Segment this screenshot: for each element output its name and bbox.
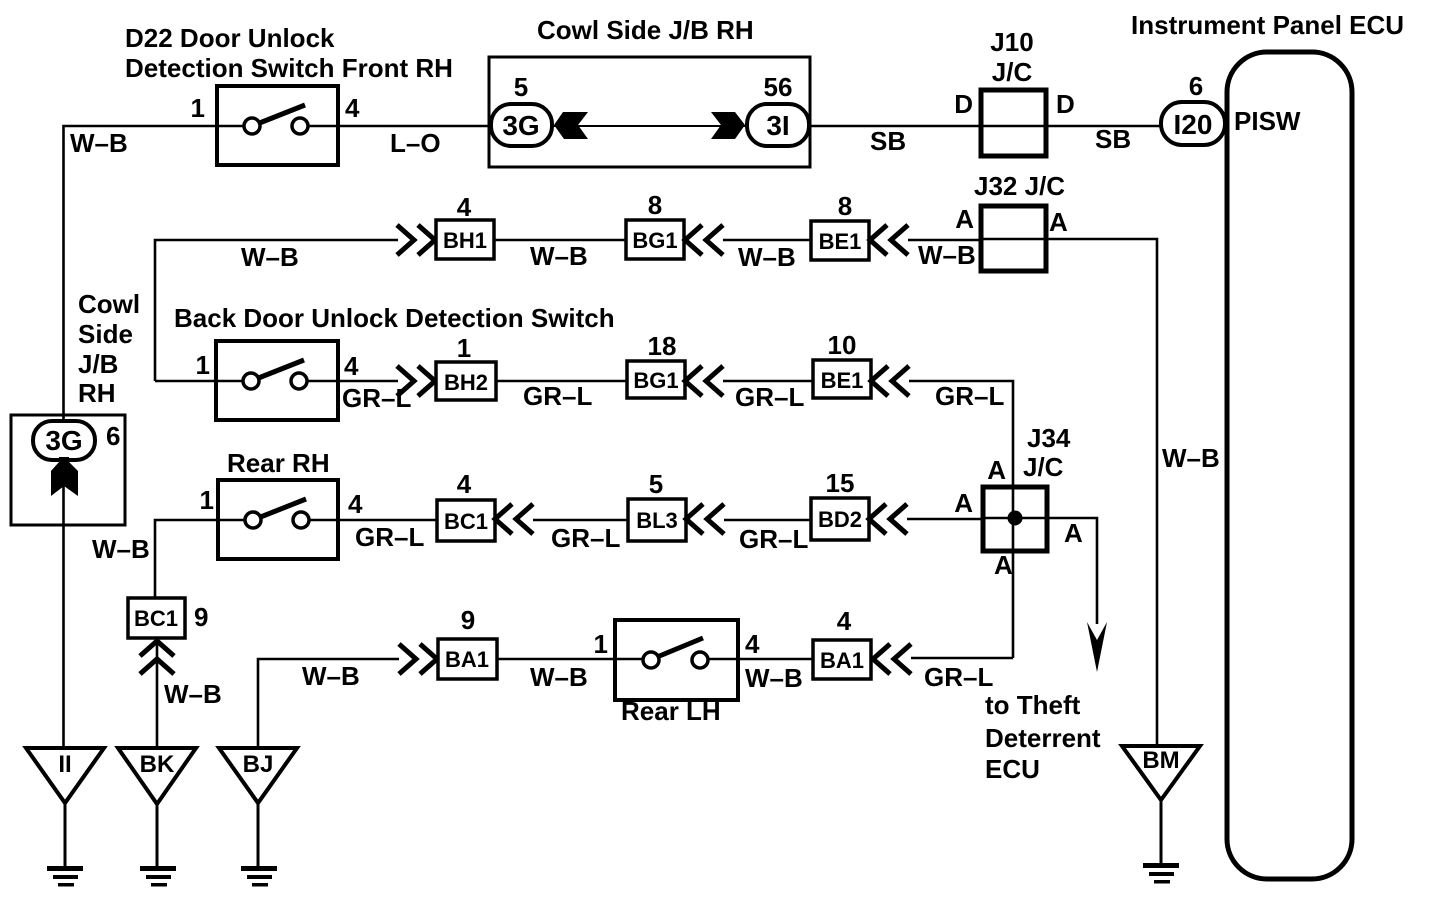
connector BA1 left <box>438 639 497 679</box>
svg-text:W–B: W–B <box>738 242 796 272</box>
arrow chevrons out of BD2 <box>869 504 907 534</box>
wire GR-L Rear RH to BC1 <box>338 519 437 522</box>
svg-text:D: D <box>954 89 973 119</box>
wire GR-L from BE1 down to J34 <box>909 381 1013 487</box>
junction J10 J/C <box>981 27 1046 156</box>
svg-text:BG1: BG1 <box>632 228 677 253</box>
connector BG1 row3 <box>627 361 685 398</box>
arrow chevrons out of BC1 <box>495 504 533 534</box>
svg-text:BJ: BJ <box>243 751 274 778</box>
svg-text:6: 6 <box>1189 71 1203 101</box>
svg-text:GR–L: GR–L <box>735 382 804 412</box>
svg-text:W–B: W–B <box>1162 443 1220 473</box>
svg-text:Rear RH: Rear RH <box>227 448 330 478</box>
svg-text:D: D <box>1056 89 1075 119</box>
wire W-B riser from Back Door switch pin 1 up to row 2 <box>155 240 398 381</box>
svg-text:10: 10 <box>828 330 857 360</box>
svg-text:J/B: J/B <box>78 349 118 379</box>
switch Back Door Unlock Detection Switch <box>216 341 338 420</box>
svg-text:W–B: W–B <box>530 662 588 692</box>
connector BG1 row2 <box>626 220 684 259</box>
connector 3I <box>747 104 809 146</box>
svg-text:4: 4 <box>348 489 363 519</box>
svg-text:1: 1 <box>196 350 210 380</box>
svg-text:L–O: L–O <box>390 128 441 158</box>
switch D22 Door Unlock Detection Switch Front RH <box>217 86 338 165</box>
wire W-B BE1 to J32 <box>908 239 981 242</box>
arrow chevrons out of BL3 <box>686 504 724 534</box>
svg-text:BG1: BG1 <box>633 368 678 393</box>
svg-text:BL3: BL3 <box>636 508 678 533</box>
wire through J32 to BM ground riser <box>981 239 1157 746</box>
junction block Cowl Side J/B RH box <box>489 57 810 167</box>
ground symbol BM <box>1143 863 1179 884</box>
arrow chevrons into BH1 <box>397 225 435 255</box>
wire GR-L BG1 to BE1 <box>723 380 813 383</box>
svg-text:J/C: J/C <box>992 57 1033 87</box>
connector BA1 right <box>813 640 871 679</box>
svg-text:BM: BM <box>1142 747 1179 774</box>
wire below BC1 to BK ground <box>156 638 159 748</box>
svg-text:W–B: W–B <box>92 534 150 564</box>
switch Rear LH <box>615 620 738 700</box>
junction dot in J34 <box>1008 511 1023 526</box>
connector BE1 row3 <box>813 360 871 398</box>
svg-text:BE1: BE1 <box>821 368 864 393</box>
svg-text:I20: I20 <box>1174 109 1213 140</box>
arrow chevrons up into BC1 <box>140 641 174 674</box>
svg-text:BC1: BC1 <box>134 606 178 631</box>
svg-text:1: 1 <box>457 333 471 363</box>
wire W-B BG1 to BE1 <box>723 239 811 242</box>
arrow into 3I <box>711 112 745 139</box>
junction J34 J/C <box>983 423 1071 551</box>
arrow chevrons out of BG1 <box>685 225 723 255</box>
svg-text:1: 1 <box>191 93 205 123</box>
wire W-B from D22 pin 1 down-left to Cowl Side J/B RH (left) <box>64 126 218 421</box>
junction block Cowl Side J/B RH (left) box <box>11 415 125 525</box>
svg-text:W–B: W–B <box>530 241 588 271</box>
svg-text:Detection Switch Front RH: Detection Switch Front RH <box>125 53 453 83</box>
wire vertical through J34 down to row 5 <box>1012 487 1015 658</box>
connector BE1 row2 <box>811 221 869 260</box>
title Cowl Side J/B RH (left) <box>78 289 140 408</box>
arrow up into 3G left <box>51 457 78 496</box>
connector BC1 left column <box>128 598 185 638</box>
svg-text:4: 4 <box>345 93 360 123</box>
svg-text:Back Door Unlock Detection Swi: Back Door Unlock Detection Switch <box>174 303 615 333</box>
svg-text:ECU: ECU <box>985 754 1040 784</box>
svg-text:A: A <box>954 488 973 518</box>
svg-text:18: 18 <box>648 331 677 361</box>
svg-text:4: 4 <box>457 469 472 499</box>
svg-text:BA1: BA1 <box>820 648 864 673</box>
svg-text:W–B: W–B <box>164 679 222 709</box>
ECU Instrument Panel ECU <box>1131 10 1404 879</box>
title D22 Door Unlock Detection Switch Front RH <box>125 23 453 83</box>
svg-text:BH1: BH1 <box>443 228 487 253</box>
arrow chevrons out of BA1 right <box>873 644 911 674</box>
svg-text:5: 5 <box>514 72 528 102</box>
wire GR-L from Back Door switch to BH2 <box>338 380 398 383</box>
svg-text:RH: RH <box>78 378 116 408</box>
switch Rear RH <box>218 480 338 559</box>
svg-text:W–B: W–B <box>302 661 360 691</box>
wire BJ to ground <box>257 803 260 867</box>
svg-text:5: 5 <box>649 469 663 499</box>
svg-text:A: A <box>1049 207 1068 237</box>
svg-text:GR–L: GR–L <box>739 524 808 554</box>
svg-text:9: 9 <box>461 605 475 635</box>
svg-text:W–B: W–B <box>70 128 128 158</box>
arrow chevrons out of BG1 row3 <box>685 366 723 396</box>
ground BJ triangle <box>219 748 297 803</box>
wire GR-L BA1 to J34 riser <box>911 657 1013 660</box>
wire through left Cowl box down to II ground <box>62 415 65 748</box>
svg-text:A: A <box>955 204 974 234</box>
connector 3G <box>491 104 552 146</box>
svg-text:9: 9 <box>194 602 208 632</box>
wire W-B Rear LH to BA1 right <box>738 658 813 661</box>
svg-text:15: 15 <box>826 468 855 498</box>
svg-text:PISW: PISW <box>1234 106 1301 136</box>
svg-text:Side: Side <box>78 319 133 349</box>
connector 3G (left) <box>33 421 95 460</box>
arrow chevrons into BA1 <box>399 644 437 674</box>
svg-text:GR–L: GR–L <box>924 662 993 692</box>
connector BH1 <box>436 220 494 259</box>
svg-text:Cowl Side J/B RH: Cowl Side J/B RH <box>537 15 754 45</box>
wire BM to ground <box>1160 800 1163 864</box>
svg-text:to Theft: to Theft <box>985 690 1081 720</box>
svg-text:4: 4 <box>837 606 852 636</box>
ground II triangle <box>26 748 104 803</box>
svg-text:W–B: W–B <box>918 240 976 270</box>
svg-text:Deterrent: Deterrent <box>985 723 1101 753</box>
wire BK to ground <box>156 804 159 867</box>
svg-text:W–B: W–B <box>745 663 803 693</box>
svg-text:J/C: J/C <box>1023 452 1064 482</box>
svg-text:3G: 3G <box>502 110 539 141</box>
svg-text:GR–L: GR–L <box>551 523 620 553</box>
svg-text:BA1: BA1 <box>445 647 489 672</box>
wire inside Cowl Side J/B between 3G and 3I <box>552 125 747 127</box>
svg-text:A: A <box>1064 518 1083 548</box>
wire GR-L BD2 to J34 <box>907 518 983 521</box>
wire from Rear RH pin 1 down to BC1 <box>155 520 218 598</box>
wire L-O from D22 pin 4 to connector 3G <box>338 125 491 128</box>
svg-text:56: 56 <box>764 72 793 102</box>
connector I20 <box>1161 102 1225 145</box>
svg-text:3I: 3I <box>766 110 789 141</box>
svg-text:GR–L: GR–L <box>523 381 592 411</box>
svg-text:Instrument Panel ECU: Instrument Panel ECU <box>1131 10 1404 40</box>
svg-text:4: 4 <box>457 192 472 222</box>
svg-text:6: 6 <box>106 421 120 451</box>
connector BD2 <box>811 498 869 540</box>
wire W-B BH1 to BG1 <box>494 239 626 242</box>
svg-text:J10: J10 <box>990 27 1033 57</box>
label to Theft Deterrent ECU <box>985 690 1101 784</box>
wire GR-L BH2 to BG1 <box>496 380 627 383</box>
wire W-B BA1 to Rear LH <box>497 658 615 661</box>
wire through J34 to Theft Deterrent arrow <box>983 518 1097 624</box>
arrow chevrons out of BE1 <box>870 225 908 255</box>
wire II to ground <box>64 803 67 867</box>
svg-text:4: 4 <box>344 351 359 381</box>
svg-text:BD2: BD2 <box>818 507 862 532</box>
svg-text:A: A <box>987 455 1006 485</box>
ground BM triangle <box>1122 746 1200 800</box>
arrow chevrons out of BE1 row3 <box>871 366 909 396</box>
arrow chevrons into BH2 <box>397 366 435 396</box>
svg-text:D22 Door Unlock: D22 Door Unlock <box>125 23 335 53</box>
svg-text:1: 1 <box>200 485 214 515</box>
svg-text:BE1: BE1 <box>819 229 862 254</box>
svg-text:A: A <box>994 550 1013 580</box>
svg-text:GR–L: GR–L <box>342 383 411 413</box>
junction J32 J/C <box>974 171 1065 271</box>
svg-text:II: II <box>58 751 71 778</box>
svg-text:Cowl: Cowl <box>78 289 140 319</box>
wire GR-L BL3 to BD2 <box>724 519 811 522</box>
connector BH2 <box>436 362 496 400</box>
svg-text:GR–L: GR–L <box>935 381 1004 411</box>
ground symbol II <box>47 866 83 887</box>
svg-text:Rear LH: Rear LH <box>621 696 721 726</box>
wire SB from Cowl Side J/B to I20 through J10 <box>810 125 1161 128</box>
svg-text:J34: J34 <box>1027 423 1071 453</box>
svg-text:W–B: W–B <box>241 242 299 272</box>
svg-text:J32 J/C: J32 J/C <box>974 171 1065 201</box>
svg-text:4: 4 <box>745 629 760 659</box>
svg-text:8: 8 <box>648 190 662 220</box>
svg-text:3G: 3G <box>45 425 82 456</box>
connector BC1 row4 <box>437 500 495 541</box>
svg-text:BC1: BC1 <box>444 509 488 534</box>
wire GR-L BC1 to BL3 <box>533 519 628 522</box>
connector BL3 <box>628 499 686 541</box>
wire from riser to Back Door switch pin 1 <box>155 380 216 383</box>
svg-text:GR–L: GR–L <box>355 522 424 552</box>
svg-text:SB: SB <box>1095 124 1131 154</box>
ground BK triangle <box>118 748 196 804</box>
svg-text:SB: SB <box>870 126 906 156</box>
ground symbol BJ <box>241 866 277 887</box>
arrow to Theft Deterrent ECU <box>1087 622 1107 672</box>
wire from BJ ground up and right to BA1 <box>258 659 399 746</box>
svg-text:BK: BK <box>140 751 175 778</box>
arrow into 3G <box>554 112 588 139</box>
ground symbol BK <box>140 866 176 887</box>
svg-text:8: 8 <box>838 191 852 221</box>
svg-text:BH2: BH2 <box>444 370 488 395</box>
svg-text:1: 1 <box>594 629 608 659</box>
